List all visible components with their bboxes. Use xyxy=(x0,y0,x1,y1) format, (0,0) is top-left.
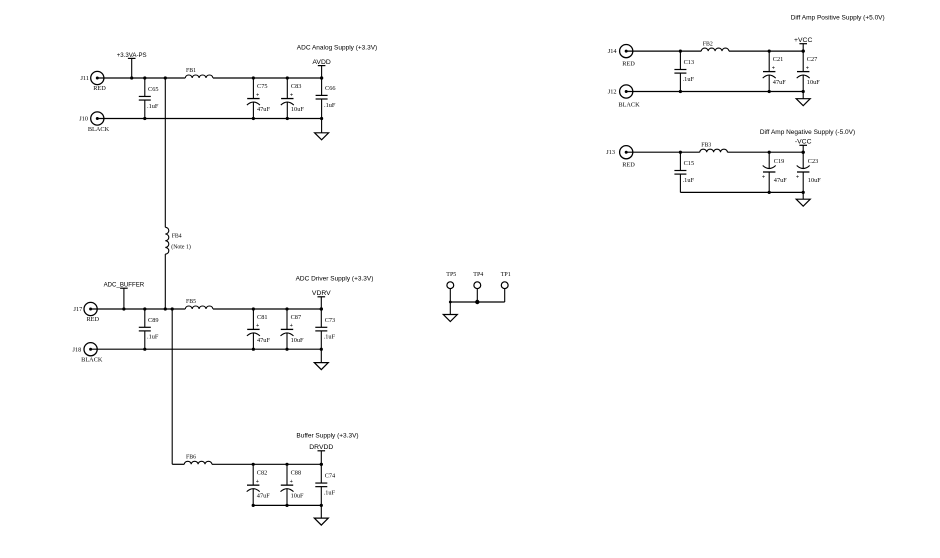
svg-text:+VCC: +VCC xyxy=(794,37,812,44)
svg-text:VDRV: VDRV xyxy=(312,290,331,297)
svg-text:.1uF: .1uF xyxy=(683,76,695,83)
svg-text:FB1: FB1 xyxy=(186,68,196,74)
svg-text:47uF: 47uF xyxy=(257,106,270,113)
svg-text:ADC Driver Supply (+3.3V): ADC Driver Supply (+3.3V) xyxy=(296,276,374,283)
svg-text:.1uF: .1uF xyxy=(324,102,336,109)
svg-text:+: + xyxy=(772,65,775,71)
svg-text:J14: J14 xyxy=(608,48,618,55)
svg-text:RED: RED xyxy=(622,162,635,169)
svg-text:+: + xyxy=(256,479,259,485)
svg-text:.1uF: .1uF xyxy=(324,334,336,341)
svg-text:C21: C21 xyxy=(773,56,784,63)
svg-text:BLACK: BLACK xyxy=(88,126,110,133)
svg-text:10uF: 10uF xyxy=(291,493,304,500)
svg-text:FB6: FB6 xyxy=(186,454,196,460)
svg-text:+: + xyxy=(290,92,293,98)
svg-text:FB5: FB5 xyxy=(186,299,196,305)
svg-text:FB4: FB4 xyxy=(172,234,182,240)
svg-text:RED: RED xyxy=(86,316,99,323)
svg-text:C15: C15 xyxy=(684,160,695,167)
svg-text:10uF: 10uF xyxy=(807,79,820,86)
svg-text:C87: C87 xyxy=(291,314,302,321)
svg-text:10uF: 10uF xyxy=(808,177,821,184)
svg-text:C65: C65 xyxy=(148,86,159,93)
svg-text:C75: C75 xyxy=(257,83,268,90)
svg-text:TP4: TP4 xyxy=(473,272,483,278)
svg-text:47uF: 47uF xyxy=(257,337,270,344)
svg-text:TP5: TP5 xyxy=(446,272,456,278)
svg-text:+: + xyxy=(256,323,259,329)
svg-text:ADC_BUFFER: ADC_BUFFER xyxy=(104,282,145,289)
svg-text:C89: C89 xyxy=(148,317,159,324)
svg-text:-VCC: -VCC xyxy=(795,139,812,146)
svg-text:+: + xyxy=(806,65,809,71)
svg-text:10uF: 10uF xyxy=(291,337,304,344)
svg-text:47uF: 47uF xyxy=(257,493,270,500)
svg-text:DRVDD: DRVDD xyxy=(309,444,333,451)
svg-text:47uF: 47uF xyxy=(773,79,786,86)
svg-text:+: + xyxy=(796,175,799,181)
svg-text:+: + xyxy=(762,175,765,181)
svg-text:J12: J12 xyxy=(608,88,617,95)
svg-text:FB2: FB2 xyxy=(703,42,713,48)
svg-text:J11: J11 xyxy=(80,75,89,82)
svg-text:+: + xyxy=(290,479,293,485)
svg-text:AVDD: AVDD xyxy=(312,59,330,66)
svg-text:RED: RED xyxy=(622,61,635,68)
svg-text:C13: C13 xyxy=(684,59,695,66)
svg-text:47uF: 47uF xyxy=(774,177,787,184)
svg-text:C83: C83 xyxy=(291,83,302,90)
svg-text:J18: J18 xyxy=(73,346,82,353)
svg-text:C19: C19 xyxy=(774,158,785,165)
svg-text:C82: C82 xyxy=(257,470,268,477)
svg-text:.1uF: .1uF xyxy=(324,489,336,496)
svg-text:C88: C88 xyxy=(291,470,302,477)
svg-text:C81: C81 xyxy=(257,314,268,321)
svg-text:ADC Analog Supply (+3.3V): ADC Analog Supply (+3.3V) xyxy=(297,45,377,52)
svg-text:TP1: TP1 xyxy=(501,272,511,278)
svg-text:.1uF: .1uF xyxy=(147,334,159,341)
svg-text:Diff Amp Negative Supply (-5.0: Diff Amp Negative Supply (-5.0V) xyxy=(760,129,855,136)
svg-text:+: + xyxy=(256,92,259,98)
svg-text:(Note 1): (Note 1) xyxy=(171,244,191,251)
svg-text:BLACK: BLACK xyxy=(618,102,640,109)
svg-text:C27: C27 xyxy=(807,56,818,63)
svg-text:Diff Amp Positive Supply (+5.0: Diff Amp Positive Supply (+5.0V) xyxy=(791,15,885,22)
svg-text:10uF: 10uF xyxy=(291,106,304,113)
svg-text:+: + xyxy=(290,323,293,329)
svg-text:.1uF: .1uF xyxy=(147,103,159,110)
svg-text:J13: J13 xyxy=(606,149,615,156)
svg-text:C66: C66 xyxy=(325,85,336,92)
svg-text:C73: C73 xyxy=(325,317,336,324)
svg-text:C23: C23 xyxy=(808,158,819,165)
svg-text:FB3: FB3 xyxy=(701,143,711,149)
svg-text:RED: RED xyxy=(93,85,106,92)
svg-text:Buffer Supply (+3.3V): Buffer Supply (+3.3V) xyxy=(296,432,358,439)
svg-text:.1uF: .1uF xyxy=(683,177,695,184)
svg-text:BLACK: BLACK xyxy=(81,357,103,364)
svg-text:C74: C74 xyxy=(325,473,336,480)
svg-text:J17: J17 xyxy=(74,306,83,313)
svg-text:+3.3VA-PS: +3.3VA-PS xyxy=(117,52,147,59)
svg-text:J10: J10 xyxy=(79,116,88,123)
